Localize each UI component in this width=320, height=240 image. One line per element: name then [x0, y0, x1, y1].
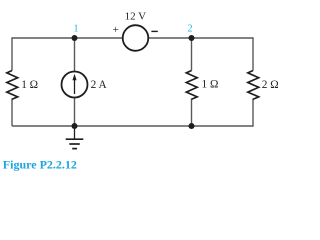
- wire node 1 to current source: [74, 38, 76, 71]
- resistor 1 ohm middle: [186, 71, 218, 100]
- svg-text:Figure P2.2.12: Figure P2.2.12: [3, 157, 77, 171]
- wire top rail left of voltage source: [12, 37, 123, 39]
- resistor 2 ohm right: [248, 71, 279, 100]
- current source 2 A: [62, 72, 108, 98]
- wire left edge lower: [11, 99, 13, 127]
- voltage source 12 V: [113, 11, 158, 51]
- node 2 junction dot: [189, 35, 195, 41]
- resistor 1 ohm left: [7, 71, 38, 100]
- junction dot bottom right: [189, 123, 195, 129]
- svg-text:1 Ω: 1 Ω: [21, 79, 38, 91]
- svg-text:12 V: 12 V: [125, 11, 147, 23]
- wire current source to bottom rail: [74, 98, 76, 126]
- wire bottom rail: [12, 125, 253, 127]
- wire middle resistor to bottom rail: [191, 99, 193, 127]
- svg-text:2 A: 2 A: [91, 79, 108, 91]
- wire right edge upper: [252, 37, 254, 70]
- svg-text:1 Ω: 1 Ω: [202, 79, 219, 91]
- junction dot bottom left: [72, 123, 78, 129]
- node 1 junction dot: [72, 35, 78, 41]
- wire top rail right of voltage source: [148, 37, 253, 39]
- wire left edge upper: [11, 37, 13, 70]
- svg-text:+: +: [113, 24, 119, 36]
- wire node 2 to middle resistor: [191, 38, 193, 71]
- ground: [66, 126, 84, 149]
- svg-text:2: 2: [187, 23, 192, 34]
- svg-text:1: 1: [73, 24, 78, 35]
- svg-text:2 Ω: 2 Ω: [262, 79, 279, 91]
- wire right edge lower: [252, 99, 254, 127]
